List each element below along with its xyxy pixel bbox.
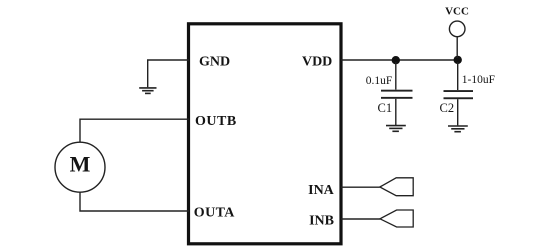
ground (C1) (386, 126, 406, 132)
wire VCC to rail (456, 37, 458, 58)
junction node at C2/VCC (454, 56, 462, 64)
wire motor to OUTA (80, 192, 189, 211)
svg-text:INB: INB (309, 214, 334, 229)
pin label INB (309, 214, 334, 229)
ground (C2) (448, 126, 468, 132)
svg-text:C2: C2 (440, 101, 455, 115)
capacitor C1 (381, 62, 413, 125)
wire OUTB to motor (80, 119, 189, 142)
svg-text:OUTA: OUTA (194, 206, 235, 221)
connector INA (380, 178, 413, 196)
pin label GND (199, 55, 230, 70)
junction node at C1 (392, 56, 400, 64)
svg-text:VDD: VDD (302, 54, 332, 69)
svg-text:GND: GND (199, 55, 230, 70)
capacitor C2 (444, 62, 474, 125)
svg-text:1-10uF: 1-10uF (462, 74, 495, 86)
label C1 (378, 101, 393, 115)
wire INB (341, 218, 380, 220)
pin label OUTA (194, 206, 235, 221)
wire VDD rail (341, 59, 458, 61)
svg-text:INA: INA (308, 183, 335, 198)
pin label OUTB (195, 114, 237, 129)
connector INB (380, 210, 413, 227)
wire GND pin to ground (148, 60, 189, 87)
svg-text:0.1uF: 0.1uF (366, 75, 393, 87)
label 1-10uF (462, 74, 495, 86)
wire INA (341, 186, 380, 188)
pin label INA (308, 183, 335, 198)
motor M (55, 142, 105, 192)
ground (GND pin) (139, 88, 156, 94)
svg-text:VCC: VCC (445, 6, 469, 18)
label C2 (440, 101, 455, 115)
VCC terminal circle (449, 21, 465, 37)
svg-text:C1: C1 (378, 101, 393, 115)
label 0.1uF (366, 75, 393, 87)
VCC label (445, 6, 469, 18)
IC U1 body (189, 24, 342, 244)
pin label VDD (302, 54, 332, 69)
svg-text:OUTB: OUTB (195, 114, 237, 129)
svg-text:M: M (70, 152, 91, 177)
